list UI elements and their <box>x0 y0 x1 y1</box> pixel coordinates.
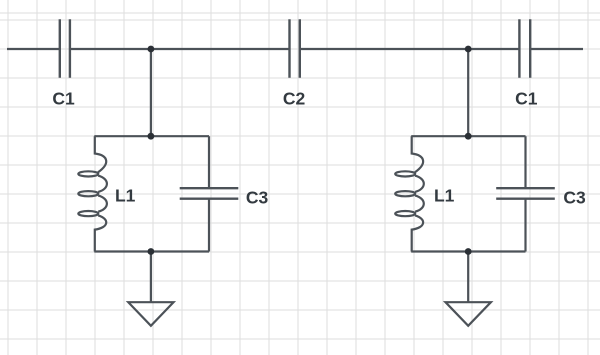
svg-text:C3: C3 <box>246 188 269 208</box>
svg-text:C2: C2 <box>283 89 306 109</box>
svg-text:C3: C3 <box>563 188 586 208</box>
svg-text:C1: C1 <box>52 89 75 109</box>
svg-text:C1: C1 <box>515 89 538 109</box>
svg-text:L1: L1 <box>115 186 136 206</box>
svg-text:L1: L1 <box>434 186 455 206</box>
